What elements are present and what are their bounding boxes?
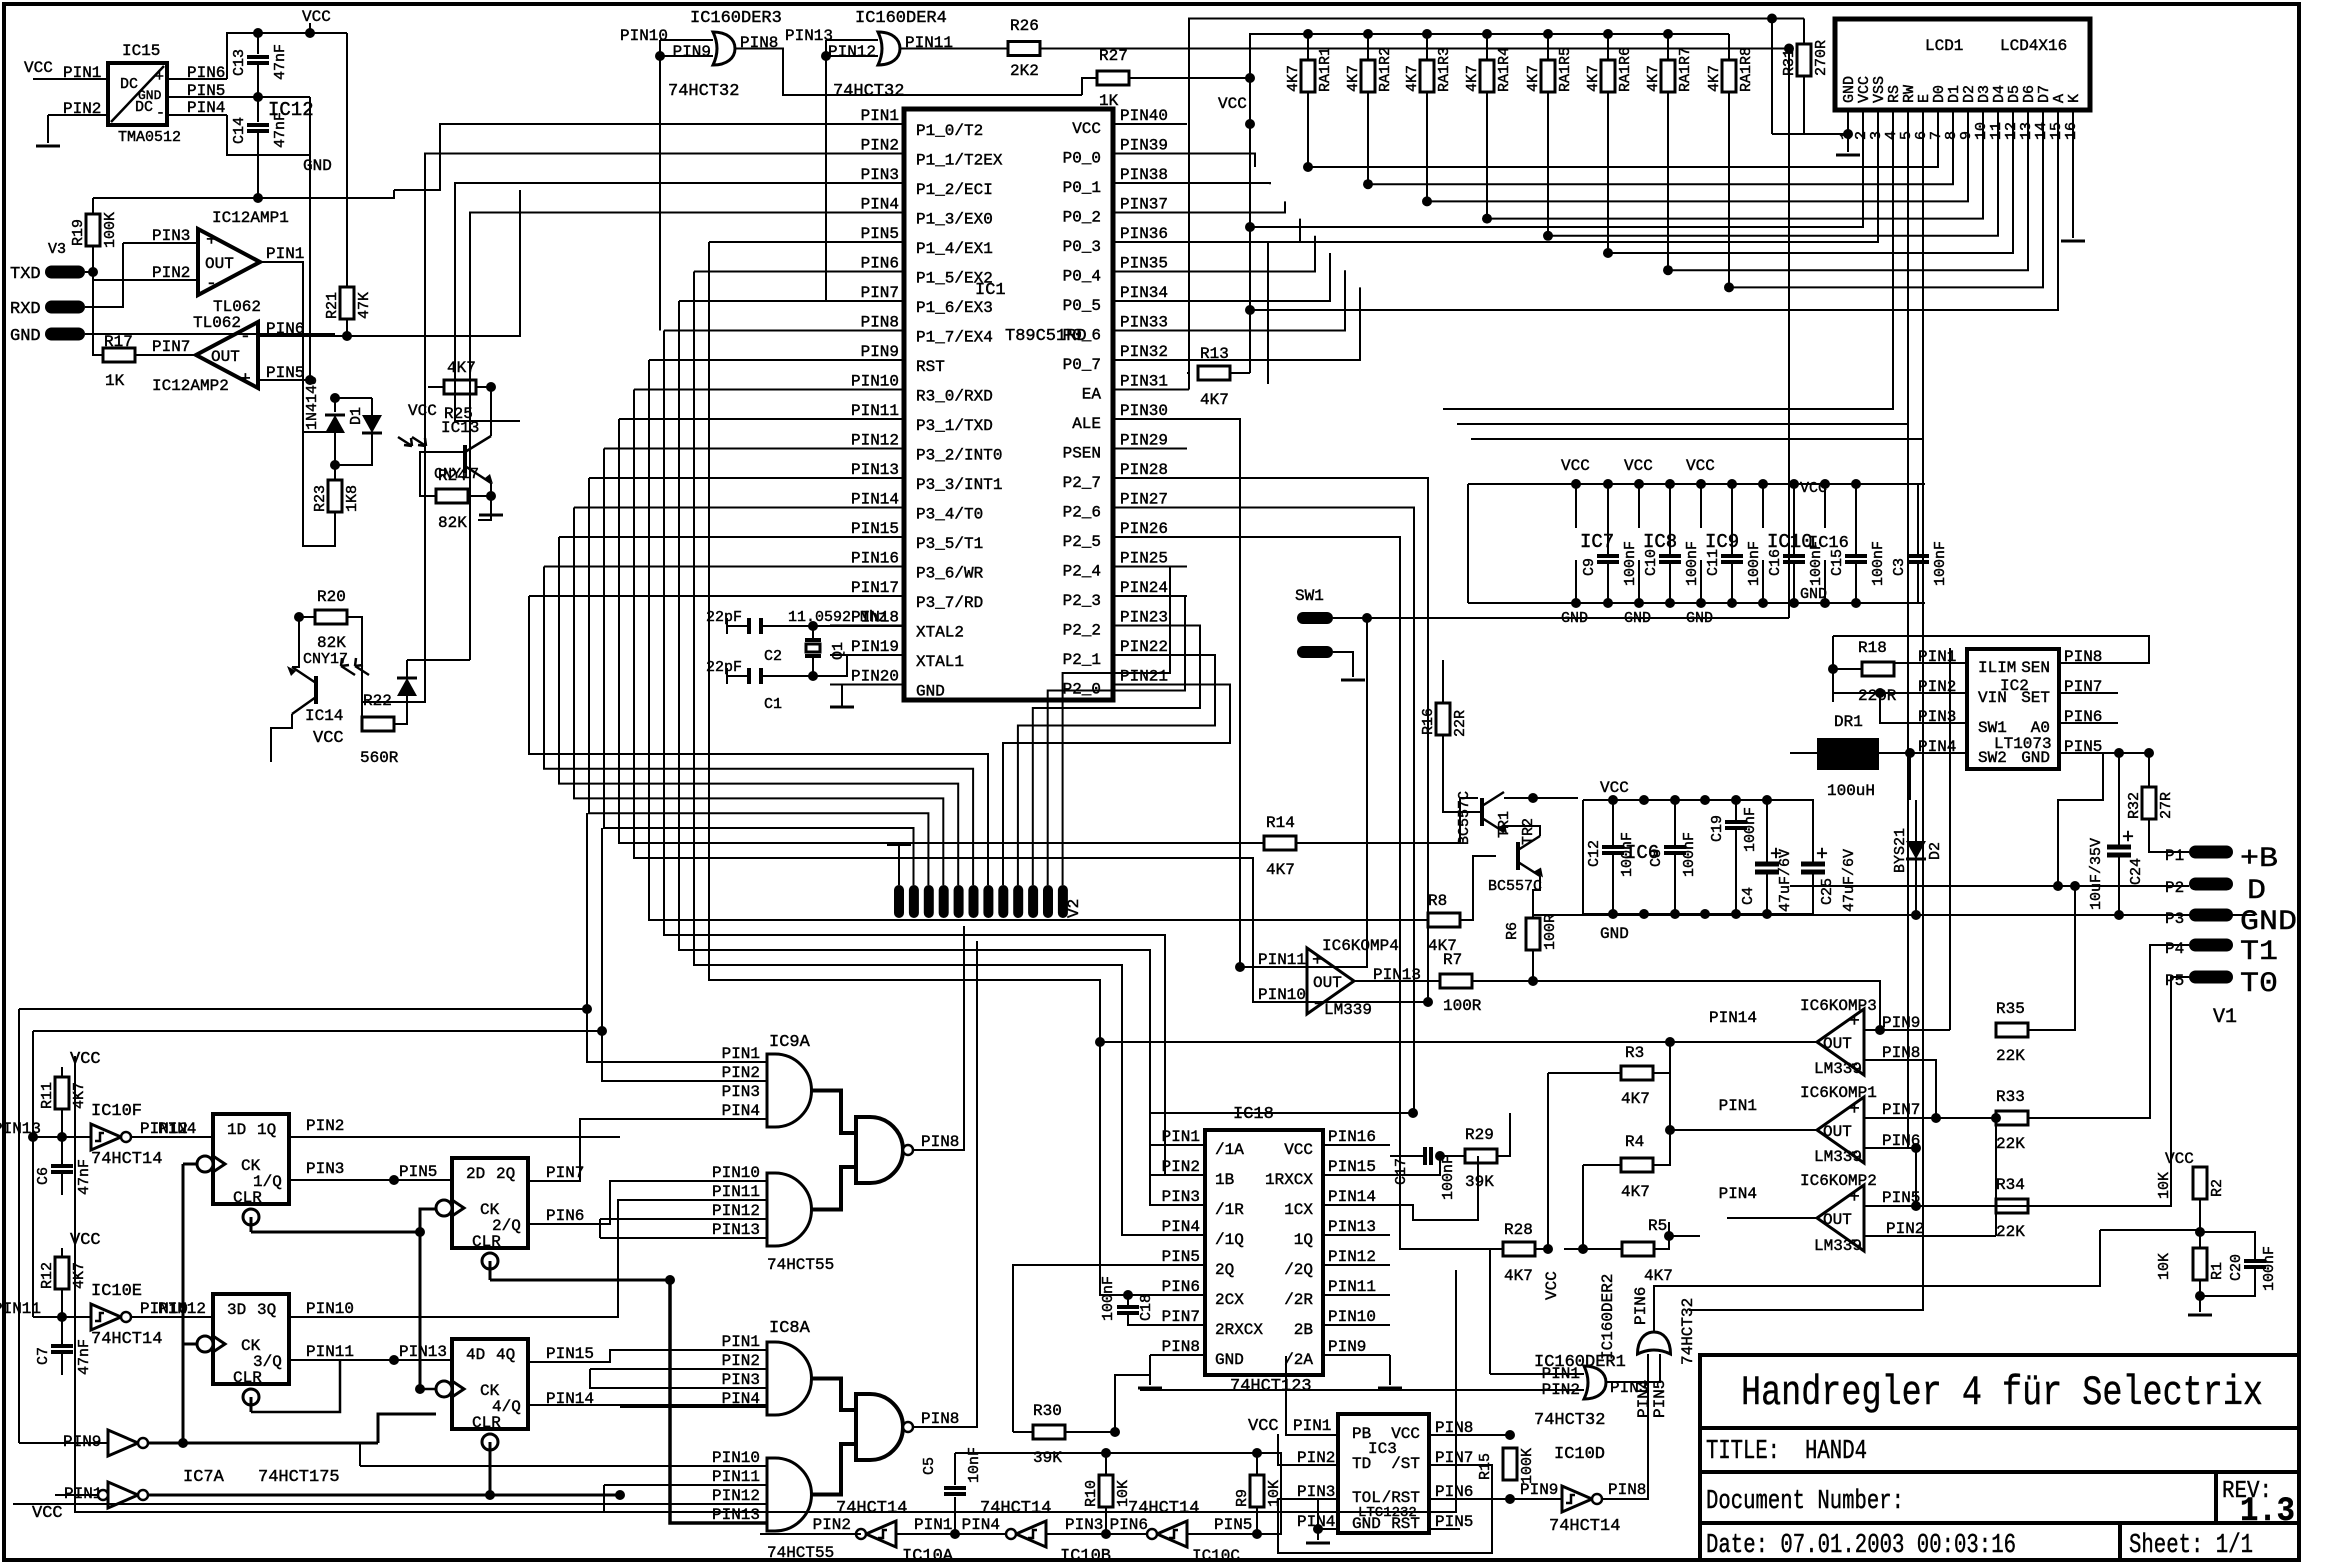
svg-text:OUT: OUT: [1823, 1123, 1852, 1141]
wire IC1 column 0: [529, 595, 830, 597]
svg-text:VCC: VCC: [408, 402, 437, 420]
wire IC10B input: [1046, 1533, 1152, 1535]
capacitor C11 100nF: [1731, 484, 1733, 555]
svg-text:270R: 270R: [1813, 40, 1830, 76]
svg-text:PIN10: PIN10: [712, 1164, 760, 1182]
svg-text:PIN7: PIN7: [152, 338, 190, 356]
wire IC160DER3 output: [735, 49, 1082, 96]
svg-text:PSEN: PSEN: [1063, 445, 1101, 463]
svg-text:1.3: 1.3: [2240, 1493, 2295, 1531]
svg-text:IC10B: IC10B: [1060, 1547, 1111, 1566]
svg-text:PIN29: PIN29: [1120, 432, 1168, 450]
svg-text:P1_2/ECI: P1_2/ECI: [916, 181, 993, 199]
svg-text:VCC: VCC: [1561, 457, 1590, 475]
svg-text:PIN3: PIN3: [1065, 1516, 1103, 1534]
wire LCD pin7 D0: [1308, 110, 1938, 167]
svg-text:R32: R32: [2126, 792, 2143, 819]
svg-text:P2_6: P2_6: [1063, 504, 1101, 522]
svg-text:PIN3: PIN3: [1162, 1188, 1200, 1206]
wire XTAL1: [761, 655, 904, 676]
svg-text:PIN14: PIN14: [851, 491, 899, 509]
svg-text:IC10E: IC10E: [91, 1282, 142, 1301]
svg-text:PIN5: PIN5: [1162, 1248, 1200, 1266]
wire IC10A: [760, 1533, 861, 1535]
svg-text:100nF: 100nF: [1681, 832, 1698, 877]
capacitor C14 47nF: [257, 97, 259, 122]
resistor RA1R5 4K7: [1543, 29, 1553, 39]
svg-text:74HCT55: 74HCT55: [767, 1256, 834, 1274]
svg-text:RA1R6: RA1R6: [1617, 47, 1634, 92]
svg-text:+: +: [155, 69, 164, 86]
diode opto led IC14: [397, 678, 417, 696]
svg-text:TMA0512: TMA0512: [118, 129, 181, 146]
wire IC160DER2 output: [1654, 1230, 2100, 1332]
wire R30 right to IC18 gnd: [1065, 1431, 1115, 1433]
svg-text:100nF: 100nF: [1100, 1276, 1117, 1321]
svg-text:P3_7/RD: P3_7/RD: [916, 594, 983, 612]
pin IC18 pin14 1CX: [1323, 1204, 1390, 1206]
svg-text:PIN16: PIN16: [1328, 1128, 1376, 1146]
svg-text:PIN1: PIN1: [914, 1516, 952, 1534]
svg-text:D2: D2: [1927, 842, 1944, 860]
svg-text:C7: C7: [35, 1347, 52, 1365]
ground IC15 pin2: [36, 145, 60, 148]
svg-text:39K: 39K: [1033, 1449, 1062, 1467]
svg-text:GND: GND: [1600, 925, 1629, 943]
svg-text:560R: 560R: [360, 749, 399, 767]
resistor R10 10K: [1099, 1475, 1113, 1507]
svg-text:C2: C2: [764, 648, 782, 665]
pin stub IC1 pin16 P3_6/WR: [830, 566, 904, 568]
svg-text:Sheet: 1/1: Sheet: 1/1: [2129, 1531, 2253, 1561]
svg-text:SW1: SW1: [1295, 587, 1324, 605]
svg-text:1RXCX: 1RXCX: [1265, 1171, 1313, 1189]
svg-text:22pF: 22pF: [706, 659, 742, 676]
wire RA1R4 to bus: [1486, 92, 1488, 219]
pin stub IC1 pin24 P2_3: [1113, 595, 1187, 597]
svg-text:47uF/6V: 47uF/6V: [1777, 849, 1794, 912]
svg-text:V2: V2: [1065, 899, 1083, 918]
svg-text:IC12AMP2: IC12AMP2: [152, 377, 229, 395]
svg-text:PIN6: PIN6: [1162, 1278, 1200, 1296]
svg-text:R3_0/RXD: R3_0/RXD: [916, 388, 993, 406]
flip-flop IC7A 4D/4Q: [452, 1339, 528, 1429]
wire IC1 column 9: [664, 330, 830, 332]
wire gnd row middle: [1533, 914, 2255, 916]
svg-text:/2R: /2R: [1284, 1291, 1313, 1309]
wire LCD pin9 D2: [1428, 110, 1968, 201]
resistor R12 4K7: [55, 1257, 69, 1289]
wire row to KOMP4 PIN10: [634, 390, 1307, 1003]
svg-text:PIN23: PIN23: [1120, 609, 1168, 627]
svg-text:/1Q: /1Q: [1215, 1231, 1244, 1249]
svg-text:PIN6: PIN6: [1110, 1516, 1148, 1534]
svg-text:PIN5: PIN5: [1214, 1516, 1252, 1534]
svg-text:/2Q: /2Q: [1284, 1261, 1313, 1279]
svg-text:47K: 47K: [356, 292, 373, 319]
svg-text:VCC: VCC: [2165, 1150, 2194, 1168]
svg-text:LCD4X16: LCD4X16: [2000, 37, 2067, 55]
wire IC10E out: [131, 1316, 213, 1318]
svg-text:GND: GND: [2240, 907, 2297, 938]
wire staircase to V2 pads left: [529, 596, 988, 885]
pin IC18 pin3 /1R: [1150, 1204, 1205, 1206]
svg-text:PIN5: PIN5: [1651, 1380, 1669, 1418]
svg-text:BC557C: BC557C: [1456, 791, 1473, 845]
svg-text:PIN15: PIN15: [1328, 1158, 1376, 1176]
svg-text:R5: R5: [1648, 1217, 1667, 1235]
transistor IC13 phototransistor: [465, 436, 491, 452]
capacitor C9 100nF: [1607, 484, 1609, 555]
svg-text:D1: D1: [348, 407, 365, 425]
svg-text:PIN9: PIN9: [861, 343, 899, 361]
pin stub IC1 pin8 P1_7/EX4: [830, 330, 904, 332]
svg-text:+: +: [1849, 1012, 1860, 1032]
svg-text:27R: 27R: [2158, 792, 2175, 819]
capacitor C1 22pF: [727, 675, 749, 677]
svg-text:PIN4: PIN4: [158, 1120, 196, 1138]
svg-text:74HCT32: 74HCT32: [833, 82, 904, 101]
pin IC18 pin9 /2A: [1323, 1354, 1390, 1356]
svg-text:4K7: 4K7: [1285, 65, 1302, 92]
svg-text:IC10C: IC10C: [1192, 1547, 1240, 1565]
wire IC1 column 5: [604, 448, 830, 450]
svg-text:3D: 3D: [227, 1301, 246, 1319]
svg-text:VCC: VCC: [1600, 779, 1629, 797]
capacitor C17 100nF: [1423, 1147, 1427, 1165]
title block: [1700, 1355, 2299, 1560]
svg-text:4K7: 4K7: [1621, 1183, 1650, 1201]
wire P5 T0 net: [2028, 977, 2189, 1206]
capacitor C25 47uF/6V: [1801, 800, 1813, 863]
svg-text:PIN10: PIN10: [851, 373, 899, 391]
svg-text:P1_1/T2EX: P1_1/T2EX: [916, 152, 1003, 170]
svg-text:PIN11: PIN11: [712, 1183, 760, 1201]
wire LCD pin14 D7: [1729, 110, 2043, 287]
resistor R23 1K8: [334, 465, 336, 480]
svg-text:100nF: 100nF: [1440, 1155, 1457, 1200]
svg-text:/1R: /1R: [1215, 1201, 1244, 1219]
svg-text:PIN10: PIN10: [306, 1300, 354, 1318]
svg-text:VCC: VCC: [1284, 1141, 1313, 1159]
wire hline 198: [93, 190, 394, 198]
svg-text:C20: C20: [2228, 1254, 2245, 1281]
svg-text:PIN4: PIN4: [722, 1390, 760, 1408]
svg-text:P0_7: P0_7: [1063, 356, 1101, 374]
svg-text:T0: T0: [2240, 969, 2278, 1000]
wire komp2 to R2 node: [1926, 1205, 2030, 1207]
pin IC18 pin15 1RXCX: [1323, 1174, 1390, 1176]
wire pin4 down: [227, 115, 310, 155]
svg-text:VCC: VCC: [1800, 480, 1827, 497]
connector V2 pads: [894, 885, 904, 918]
svg-text:P2_2: P2_2: [1063, 622, 1101, 640]
thick CLR net: [250, 1217, 253, 1232]
svg-text:P3_4/T0: P3_4/T0: [916, 506, 983, 524]
svg-text:100nF: 100nF: [1870, 541, 1887, 586]
ground R1: [2188, 1314, 2212, 1317]
svg-text:4K7: 4K7: [1585, 65, 1602, 92]
wire lower fan rows: [649, 360, 1412, 920]
wire IC1 column 11: [694, 271, 830, 273]
wire LCD pin13 D6: [1669, 110, 2028, 270]
svg-text:IC15: IC15: [122, 42, 160, 60]
svg-text:P2: P2: [2165, 879, 2184, 897]
svg-text:PIN1: PIN1: [266, 245, 304, 263]
ground IC3: [1317, 1529, 1319, 1540]
svg-text:PIN12: PIN12: [828, 43, 876, 61]
svg-text:PIN2: PIN2: [1162, 1158, 1200, 1176]
svg-text:PIN22: PIN22: [1120, 638, 1168, 656]
svg-text:C15: C15: [1829, 549, 1846, 576]
pin stub IC1 pin23 P2_2: [1113, 625, 1187, 627]
svg-text:74HCT32: 74HCT32: [1679, 1298, 1697, 1365]
svg-text:XTAL2: XTAL2: [916, 624, 964, 642]
svg-text:C12: C12: [1586, 840, 1603, 867]
svg-text:C10: C10: [1643, 549, 1660, 576]
svg-text:1N4148: 1N4148: [304, 376, 321, 430]
svg-text:P3_3/INT1: P3_3/INT1: [916, 476, 1002, 494]
svg-text:4K7: 4K7: [1404, 65, 1421, 92]
wire PIN4 right net: [1995, 1118, 1997, 1236]
svg-text:P0_4: P0_4: [1063, 268, 1101, 286]
pin IC18 pin10 2B: [1323, 1324, 1390, 1326]
svg-text:VCC: VCC: [1072, 120, 1101, 138]
svg-text:P1_7/EX4: P1_7/EX4: [916, 329, 993, 347]
pin IC18 pin16 VCC: [1323, 1144, 1390, 1146]
wire komp rails: [1669, 1042, 1671, 1130]
pin stub IC1 pin28 P2_7: [1113, 477, 1187, 479]
svg-text:D: D: [2247, 876, 2266, 907]
wire comparator PIN8 net: [1935, 1060, 1937, 1118]
wire staircase V2 pads right: [1003, 685, 1230, 886]
svg-text:IC160DER2: IC160DER2: [1599, 1274, 1617, 1360]
svg-text:PIN9: PIN9: [1520, 1481, 1558, 1499]
resistor R32 27R: [2148, 753, 2150, 787]
wire EA row: [1187, 389, 1189, 391]
wire LCD pin6 long vertical: [1689, 110, 1923, 1310]
svg-text:PIN4: PIN4: [1719, 1185, 1757, 1203]
svg-text:PIN15: PIN15: [546, 1345, 594, 1363]
svg-text:PIN4: PIN4: [1162, 1218, 1200, 1236]
wire VCC rail topleft: [309, 23, 311, 33]
svg-text:100R: 100R: [1443, 997, 1482, 1015]
svg-text:/1A: /1A: [1215, 1141, 1244, 1159]
wire bus P0 rows: [1187, 154, 1255, 168]
svg-text:PIN3: PIN3: [861, 166, 899, 184]
pin stub IC1 pin20 GND: [830, 684, 904, 686]
svg-text:R35: R35: [1996, 1000, 2025, 1018]
svg-text:74HCT14: 74HCT14: [91, 1150, 162, 1169]
svg-text:R14: R14: [1266, 814, 1295, 832]
pin stub IC1 pin19 XTAL1: [830, 654, 904, 656]
resistor RA1R8 4K7: [1728, 34, 1730, 60]
svg-text:VCC: VCC: [313, 729, 344, 748]
ground at IC1 GND: [830, 706, 854, 709]
svg-text:RA1R1: RA1R1: [1317, 47, 1334, 92]
svg-text:47nF: 47nF: [272, 44, 289, 80]
svg-text:4K7: 4K7: [1525, 65, 1542, 92]
svg-text:Date: 07.01.2003 00:03:16: Date: 07.01.2003 00:03:16: [1706, 1531, 2016, 1561]
svg-text:2D: 2D: [466, 1165, 485, 1183]
svg-text:4K7: 4K7: [447, 359, 476, 377]
svg-text:C9: C9: [1581, 558, 1598, 576]
svg-text:DC: DC: [135, 99, 153, 116]
wire IC9A B inputs: [610, 1181, 767, 1194]
svg-text:C25: C25: [1819, 878, 1836, 905]
svg-text:IC160DER3: IC160DER3: [690, 9, 782, 28]
wire DR1 left: [1790, 752, 1817, 754]
and-gate IC8A input B: [767, 1458, 811, 1531]
svg-text:4K7: 4K7: [1464, 65, 1481, 92]
svg-text:R2: R2: [2209, 1179, 2226, 1197]
svg-text:PIN7: PIN7: [546, 1164, 584, 1182]
pin IC18 pin12 /2Q: [1323, 1264, 1390, 1266]
ic IC16 power stub: [1824, 484, 1826, 528]
svg-text:LM339: LM339: [1324, 1001, 1372, 1019]
svg-text:R34: R34: [1996, 1176, 2025, 1194]
svg-text:PIN36: PIN36: [1120, 225, 1168, 243]
svg-text:TL062: TL062: [193, 314, 241, 332]
svg-text:R10: R10: [1083, 1480, 1100, 1507]
wire GND pin20: [842, 685, 904, 708]
wire IC8A B inputs: [360, 1465, 767, 1467]
svg-text:IC14: IC14: [305, 707, 343, 725]
svg-text:R26: R26: [1010, 17, 1039, 35]
svg-text:100nF: 100nF: [1622, 541, 1639, 586]
svg-text:C18: C18: [1138, 1294, 1155, 1321]
svg-text:10K: 10K: [1266, 1480, 1283, 1507]
svg-text:P1_3/EX0: P1_3/EX0: [916, 211, 993, 229]
svg-text:RST: RST: [1391, 1515, 1420, 1533]
svg-text:R15: R15: [1477, 1453, 1494, 1480]
svg-text:R21: R21: [324, 292, 341, 319]
wire IC10E in: [33, 1316, 91, 1318]
wire SW1 net down: [1307, 618, 1367, 967]
svg-text:PIN11: PIN11: [306, 1343, 354, 1361]
svg-text:82K: 82K: [438, 514, 467, 532]
wire inv1 out: [148, 1494, 620, 1497]
capacitor C2 22pF: [727, 625, 749, 627]
wire RA1R3 to bus: [1426, 92, 1428, 201]
svg-text:22K: 22K: [1996, 1135, 2025, 1153]
svg-text:P2_7: P2_7: [1063, 474, 1101, 492]
wire band rows from logic to MCU: [19, 813, 587, 1009]
svg-text:TITLE:: TITLE:: [1706, 1437, 1780, 1467]
svg-text:PIN2: PIN2: [306, 1117, 344, 1135]
wire LCD pin6 E: [1471, 110, 1923, 439]
svg-text:PIN39: PIN39: [1120, 137, 1168, 155]
wire P4 T1 net: [2028, 945, 2189, 1118]
svg-text:CLR: CLR: [233, 1369, 262, 1387]
pin stub IC1 pin40 VCC: [1113, 123, 1187, 125]
svg-text:74HCT14: 74HCT14: [1549, 1517, 1620, 1536]
svg-text:P1_5/EX2: P1_5/EX2: [916, 270, 993, 288]
wire TR1 emitter to VCC rail: [1504, 797, 1578, 799]
svg-text:RST: RST: [916, 358, 945, 376]
wire LCD pin12 D5: [1609, 110, 2013, 253]
capacitor C16 100nF: [1793, 484, 1795, 555]
svg-text:22pF: 22pF: [706, 609, 742, 626]
svg-text:PIN34: PIN34: [1120, 284, 1168, 302]
svg-text:PIN21: PIN21: [1120, 668, 1168, 686]
wire R30 loop: [1013, 1265, 1205, 1432]
pin stub IC1 pin11 P3_1/TXD: [830, 418, 904, 420]
svg-text:47uF/6V: 47uF/6V: [1841, 849, 1858, 912]
svg-text:PIN3: PIN3: [306, 1160, 344, 1178]
wire LCD pin1 from R31: [1772, 133, 1848, 135]
wire IC1 column 2: [559, 536, 830, 538]
capacitor C3 100nF: [1856, 484, 1918, 555]
svg-text:LM339: LM339: [1814, 1148, 1862, 1166]
svg-text:IC10D: IC10D: [1554, 1445, 1605, 1464]
svg-text:P0_3: P0_3: [1063, 238, 1101, 256]
ic IC8 power stub: [1638, 484, 1640, 528]
svg-text:PIN1: PIN1: [722, 1045, 760, 1063]
pin stub IC1 pin22 P2_1: [1113, 654, 1187, 656]
ic IC9 power stub: [1700, 484, 1702, 528]
svg-text:4K7: 4K7: [1706, 65, 1723, 92]
wire LCD pin16 K: [2072, 110, 2074, 238]
svg-text:+: +: [1849, 1100, 1860, 1120]
wire IC18 pin14: [1390, 1156, 1478, 1220]
svg-text:74HCT123: 74HCT123: [1230, 1377, 1312, 1396]
wire IC1 column 10: [679, 300, 830, 302]
wire LCD pin8 D1: [1368, 110, 1953, 184]
ic IC3 LTC1232: [1338, 1414, 1429, 1533]
pin stub IC1 pin7 P1_6/EX3: [830, 300, 904, 302]
flip-flop IC7A 3D/3Q: [213, 1294, 289, 1384]
svg-text:RA1R7: RA1R7: [1677, 47, 1694, 92]
capacitor C12 100nF: [1612, 800, 1614, 845]
svg-text:PIN2: PIN2: [813, 1516, 851, 1534]
svg-text:P1_4/EX1: P1_4/EX1: [916, 240, 993, 258]
svg-text:P1_0/T2: P1_0/T2: [916, 122, 983, 140]
pin stub IC1 pin3 P1_2/ECI: [830, 182, 904, 184]
wire RA1R8 to bus: [1728, 92, 1730, 287]
svg-text:PIN25: PIN25: [1120, 550, 1168, 568]
pin IC18 pin5 2Q: [1150, 1264, 1205, 1266]
svg-text:2K2: 2K2: [1010, 62, 1039, 80]
svg-text:OUT: OUT: [1823, 1035, 1852, 1053]
pin stub IC1 pin2 P1_1/T2EX: [830, 153, 904, 155]
ic IC7 power stub: [1575, 484, 1577, 528]
wire IC10F in: [33, 1136, 91, 1138]
svg-text:R29: R29: [1465, 1126, 1494, 1144]
svg-text:PIN10: PIN10: [712, 1449, 760, 1467]
svg-text:74HCT175: 74HCT175: [258, 1468, 340, 1487]
svg-text:2RXCX: 2RXCX: [1215, 1321, 1263, 1339]
svg-text:SW2: SW2: [1978, 749, 2007, 767]
svg-text:C5: C5: [921, 1457, 938, 1475]
svg-text:R30: R30: [1033, 1402, 1062, 1420]
capacitor C10 100nF: [1669, 484, 1671, 555]
svg-text:-: -: [1312, 994, 1323, 1014]
svg-text:1K: 1K: [1099, 92, 1119, 110]
pin stub IC1 pin18 XTAL2: [830, 625, 904, 627]
svg-text:C17: C17: [1393, 1158, 1410, 1185]
pin stub IC1 pin5 P1_4/EX1: [830, 241, 904, 243]
pin stub IC1 pin13 P3_3/INT1: [830, 477, 904, 479]
svg-text:RA1R5: RA1R5: [1557, 47, 1574, 92]
pin stub IC1 pin36 P0_3: [1113, 241, 1187, 243]
pin stub IC1 pin37 P0_2: [1113, 212, 1187, 214]
pin stub IC1 pin14 P3_4/T0: [830, 507, 904, 509]
pin IC18 pin13 1Q: [1323, 1234, 1390, 1236]
svg-text:100nF: 100nF: [1932, 541, 1949, 586]
svg-text:PIN7: PIN7: [1162, 1308, 1200, 1326]
svg-text:100nF: 100nF: [2261, 1246, 2278, 1291]
